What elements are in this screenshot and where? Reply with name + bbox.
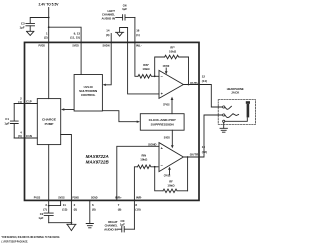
pin 16 (1) INL	[136, 29, 142, 48]
arrow into charge pump right edge	[61, 108, 64, 110]
wire SVDD inside to UVLO	[80, 42, 82, 74]
wire SVDD rail	[49, 27, 81, 42]
svg-text:1µF: 1µF	[4, 121, 9, 125]
pin 1 (2) PVDD	[39, 32, 48, 48]
wire INR inside up to RIN	[134, 167, 137, 201]
block CLICK-AND-POP SUPPRESSION	[140, 114, 184, 131]
jack ring contact	[223, 114, 225, 116]
svg-text:(6): (6)	[18, 134, 22, 138]
svg-text:10kΩ: 10kΩ	[167, 184, 175, 188]
wire INR below border	[133, 200, 135, 229]
wire feedback down to output L	[188, 57, 190, 85]
wire PVSS below border	[48, 200, 50, 205]
block UVLO/SHUTDOWN CONTROL	[74, 75, 102, 112]
svg-text:AUDIO IN: AUDIO IN	[104, 227, 118, 231]
svg-text:12: 12	[202, 74, 206, 78]
wire UVLO to click-and-pop	[102, 111, 136, 122]
svg-text:SHDN: SHDN	[103, 44, 110, 48]
wire feedback riser L	[155, 57, 165, 76]
resistor RF 10k right	[163, 180, 188, 193]
wire OUTR to jack	[199, 115, 222, 157]
wire C1P	[14, 103, 37, 105]
svg-text:INL-: INL-	[136, 44, 142, 48]
pin 10 (12) OUTR	[202, 145, 207, 154]
label OUTR	[190, 153, 199, 157]
svg-text:+: +	[161, 146, 164, 151]
ground SGND	[86, 224, 93, 228]
wire node to op-amp R minus	[155, 166, 158, 168]
svg-text:7: 7	[118, 203, 120, 207]
svg-text:2: 2	[74, 203, 76, 207]
ground PGND	[67, 224, 76, 230]
pin 3 (7) PVSS	[34, 195, 47, 211]
pin 12 (14) OUTL	[202, 74, 207, 83]
svg-text:SUPPRESSION: SUPPRESSION	[151, 123, 174, 127]
note line 1	[2, 235, 61, 239]
svg-text:11: 11	[63, 203, 66, 207]
pin 9,13 (11,15) SVDD	[70, 32, 80, 48]
svg-text:8: 8	[135, 203, 137, 207]
label SGND net right op-amp	[148, 142, 156, 146]
svg-text:SGND: SGND	[91, 195, 98, 199]
wire SGND down	[89, 200, 91, 223]
svg-text:6: 6	[92, 203, 94, 207]
note line 2	[2, 240, 29, 244]
svg-text:CHARGE: CHARGE	[42, 118, 56, 122]
arrow CPVSS into op-amp L bottom	[171, 97, 174, 114]
svg-text:PUMP: PUMP	[45, 122, 54, 126]
arrow SVDD into op-amp R top	[171, 130, 174, 148]
svg-text:14: 14	[106, 29, 110, 33]
wire PGND down	[70, 200, 72, 224]
wire CPVSS output of charge pump	[61, 135, 72, 201]
wire node to op-amp L minus	[155, 75, 159, 77]
op-amp U2 right channel	[159, 143, 183, 172]
resistor RIN* 10k left	[138, 63, 155, 78]
wire SVSS join	[49, 200, 61, 205]
wire BIAS rail to op-amp R plus	[117, 146, 159, 200]
arrow into UVLO right edge	[103, 84, 106, 86]
svg-text:10kΩ: 10kΩ	[142, 67, 150, 71]
jack ring switch	[225, 114, 238, 118]
supply label 2.4V TO 5.5V	[39, 3, 60, 7]
pin 6 (8) SGND	[91, 195, 98, 211]
svg-text:( ) FOR TSSOP PACKAGE.: ( ) FOR TSSOP PACKAGE.	[2, 240, 29, 244]
capacitor C1 1uF flying	[4, 104, 18, 139]
wire supply vertical	[48, 8, 50, 43]
resistor RIN 10k right	[138, 154, 155, 169]
label CPVSS right op-amp	[164, 173, 171, 177]
node inverting input R	[154, 166, 156, 168]
wire SHDN inside	[105, 42, 111, 84]
arrow CPVDD into op-amp L top	[165, 68, 168, 74]
node PGND-C2	[71, 222, 73, 224]
svg-text:PVSS: PVSS	[34, 195, 40, 199]
node PVSS-SVSS join	[48, 205, 50, 207]
wire to C3	[30, 18, 49, 24]
svg-text:CPVDD: CPVDD	[163, 64, 170, 68]
label MAX9722A MAX9722B	[86, 154, 110, 165]
svg-text:(10): (10)	[135, 207, 140, 211]
wire feedback up to output R	[187, 157, 189, 191]
wire UVLO to charge pump	[64, 109, 74, 111]
svg-text:SGND: SGND	[148, 142, 156, 146]
wire jack sleeve to plug sleeve	[225, 118, 248, 122]
pin 11 (13) SVSS	[58, 195, 67, 211]
arrow CPVSS into op-amp R bottom	[168, 167, 171, 175]
svg-text:PVDD: PVDD	[39, 44, 46, 48]
pin 4 (6) C1N	[18, 131, 32, 139]
svg-text:(2): (2)	[44, 36, 48, 40]
svg-text:C1P: C1P	[26, 100, 32, 104]
block CHARGE PUMP	[37, 99, 60, 145]
label OUTL	[190, 81, 198, 85]
svg-text:(1): (1)	[136, 33, 140, 37]
node output R	[187, 156, 189, 158]
jack plug bar	[246, 101, 250, 117]
svg-text:(5): (5)	[74, 207, 78, 211]
wire noninverting input rail L from BIAS pin	[128, 42, 159, 94]
svg-text:16: 16	[136, 29, 140, 33]
svg-text:JACK: JACK	[231, 91, 240, 95]
label RIGHT CHANNEL AUDIO IN	[104, 220, 118, 232]
node supply-C3	[48, 17, 50, 19]
wire output R to border	[183, 156, 199, 158]
svg-text:10kΩ: 10kΩ	[169, 50, 177, 54]
label CPVDD above op-amp L	[163, 64, 170, 68]
pin BIAS grounded outside	[120, 28, 128, 43]
svg-text:−: −	[161, 74, 164, 79]
svg-text:3: 3	[45, 203, 47, 207]
svg-text:SVDD: SVDD	[164, 135, 170, 139]
svg-text:MAX9722A: MAX9722A	[86, 154, 109, 159]
jack sleeve contact	[223, 120, 225, 122]
svg-text:MAX9722B: MAX9722B	[86, 160, 110, 165]
svg-text:OUTR: OUTR	[190, 153, 199, 157]
wire INL pin down	[134, 17, 136, 42]
svg-text:(8): (8)	[92, 207, 96, 211]
resistor RF* 10k left	[165, 45, 189, 58]
svg-text:1µF: 1µF	[20, 26, 25, 30]
jack tip contact	[223, 106, 225, 108]
svg-text:(14): (14)	[202, 79, 207, 83]
svg-text:SVDD: SVDD	[72, 44, 79, 48]
svg-text:CPVSS: CPVSS	[164, 173, 171, 177]
svg-text:SVSS: SVSS	[58, 195, 64, 199]
svg-text:CLICK-AND-POP: CLICK-AND-POP	[149, 118, 176, 122]
wire output L to border	[183, 84, 199, 86]
op-amp U1 left channel	[159, 70, 183, 98]
capacitor C2 1uF	[38, 206, 53, 223]
capacitor CIN right 1uF	[118, 219, 134, 232]
svg-text:INR-: INR-	[136, 195, 142, 199]
arrow into click-and-pop left edge	[137, 121, 140, 123]
wire OUTL to jack	[199, 85, 222, 108]
label SVDD right op-amp	[164, 135, 170, 139]
svg-text:(3): (3)	[106, 33, 110, 37]
IC boundary box MAX9722	[25, 42, 200, 200]
svg-text:C1N: C1N	[26, 134, 32, 138]
wire C2 to PGND ground	[49, 222, 72, 224]
wire jack sleeve to ground	[223, 122, 225, 128]
svg-text:1µF: 1µF	[38, 216, 43, 220]
svg-text:CONTROL: CONTROL	[81, 93, 96, 97]
wire feedback drop R	[155, 167, 163, 191]
wire PVDD inside to charge pump	[48, 42, 50, 98]
wire PVSS from charge pump	[48, 145, 50, 201]
svg-text:(11, 15): (11, 15)	[70, 36, 80, 40]
node inverting input L	[154, 75, 156, 77]
svg-text:+: +	[161, 91, 164, 96]
wire C1N	[14, 137, 37, 139]
svg-text:(13): (13)	[62, 207, 67, 211]
ground for C3	[26, 26, 34, 36]
svg-text:(7): (7)	[43, 207, 47, 211]
svg-text:OUTL: OUTL	[190, 81, 198, 85]
label LEFT CHANNEL AUDIO IN	[102, 9, 116, 21]
svg-text:10kΩ: 10kΩ	[140, 158, 148, 162]
ground headphone jack	[220, 128, 227, 132]
capacitor CIN left 1uF	[116, 4, 135, 21]
jack tip switch	[225, 106, 231, 109]
svg-text:2.4V TO 5.5V: 2.4V TO 5.5V	[39, 3, 60, 7]
node output L	[188, 84, 190, 86]
svg-text:−: −	[161, 163, 164, 168]
ground at BIAS pin	[116, 32, 124, 36]
pin 8 (10) INR	[135, 195, 142, 211]
headphone jack dashed box	[218, 100, 255, 125]
label HEADPHONE JACK	[227, 87, 244, 95]
svg-text:(4): (4)	[18, 100, 22, 104]
svg-text:(9): (9)	[118, 207, 122, 211]
pin 14 (3) SHDN stub	[103, 29, 112, 48]
svg-text:*FOR MAX9722A, R IN AND R F AR: *FOR MAX9722A, R IN AND R F ARE EXTERNAL…	[2, 235, 61, 239]
capacitor C3 1uF	[20, 21, 35, 29]
svg-text:INR+: INR+	[115, 195, 122, 199]
svg-text:AUDIO IN: AUDIO IN	[102, 16, 116, 20]
label CPVSS left op-amp	[163, 103, 170, 107]
svg-text:1µF: 1µF	[122, 7, 127, 11]
pin 7 (9) BIAS bottom	[115, 195, 122, 211]
svg-text:PGND: PGND	[72, 195, 79, 199]
wire INL inside to RIN*	[135, 42, 138, 76]
svg-text:CPVSS: CPVSS	[163, 103, 170, 107]
pin 2 (5) PGND	[72, 195, 79, 211]
svg-text:1µF: 1µF	[120, 222, 125, 226]
pin 2 (4) C1P	[18, 97, 32, 104]
node supply-SVDD	[48, 26, 50, 28]
